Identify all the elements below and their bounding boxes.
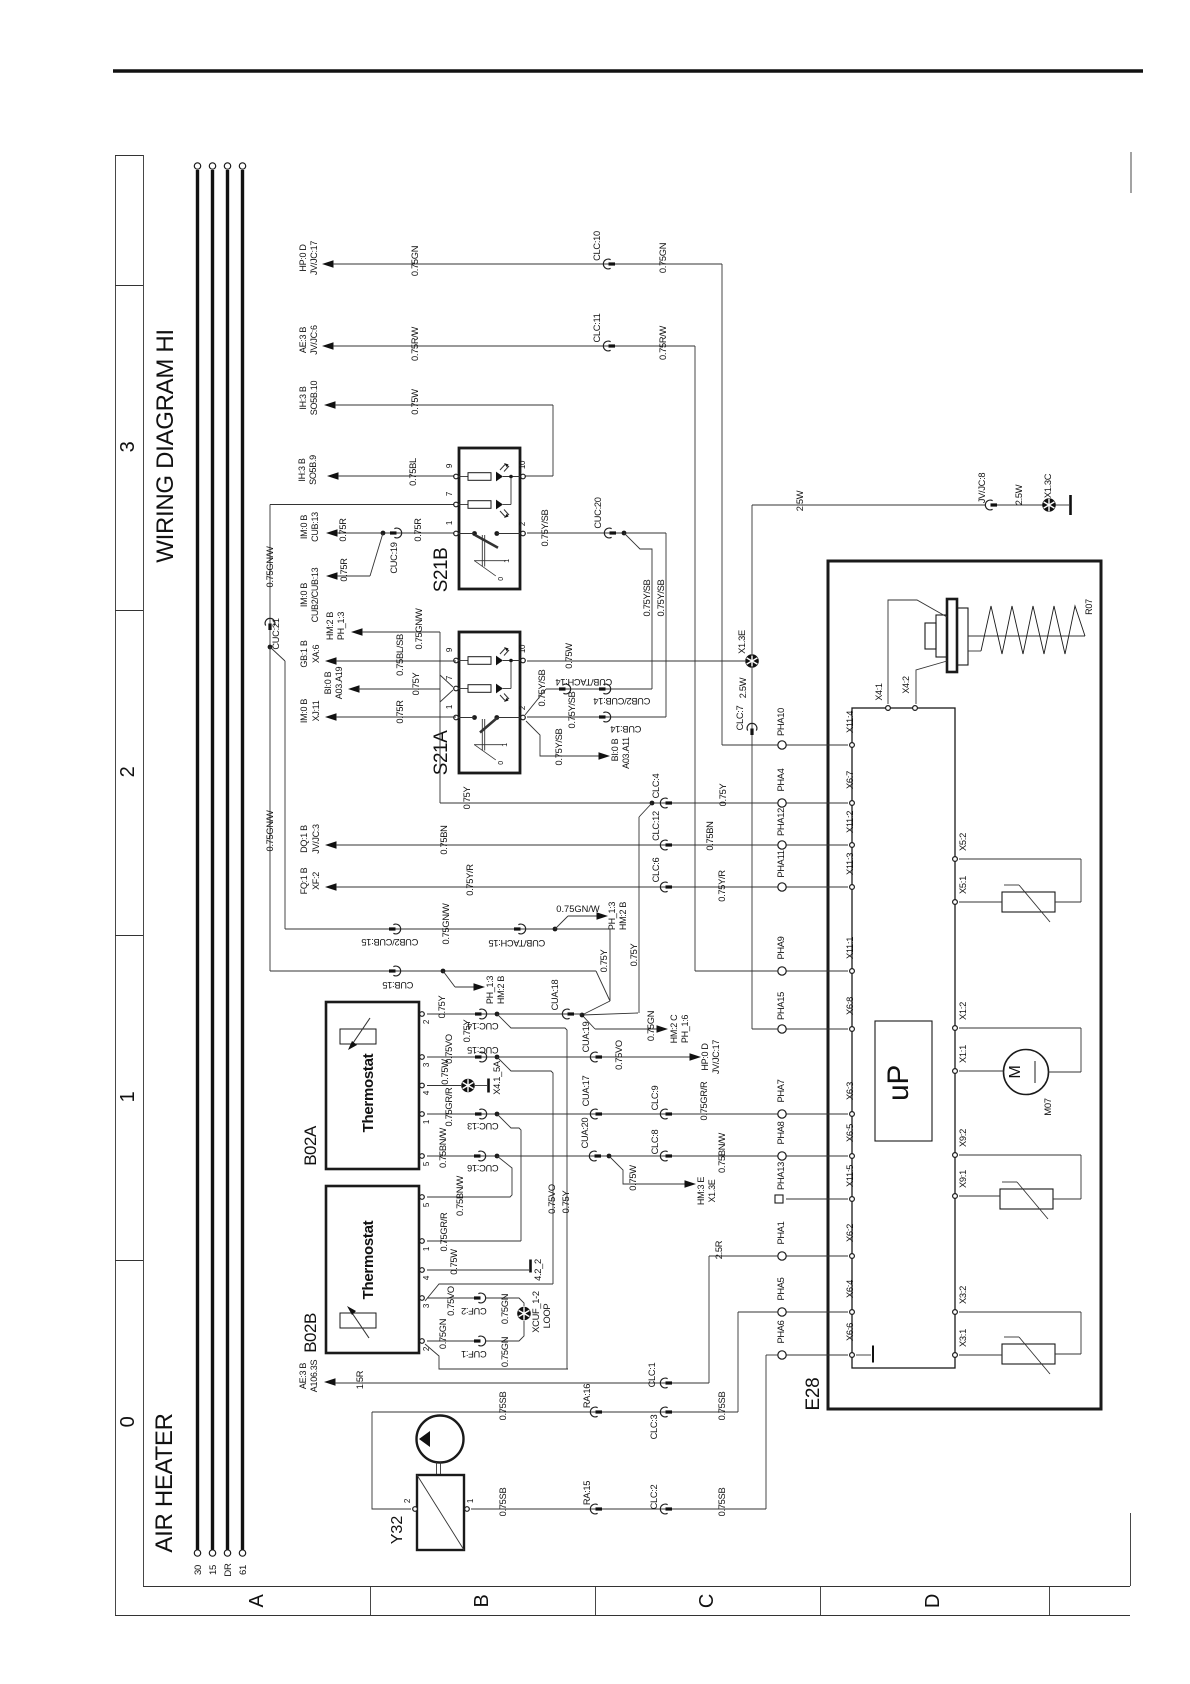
svg-text:X11:5: X11:5 bbox=[845, 1165, 855, 1187]
E28 inner unit box bbox=[852, 708, 955, 1368]
connector CLC:4 bbox=[651, 773, 672, 807]
node HM:2 B PH_1:3 right (arrow) bbox=[597, 902, 629, 931]
junction row1156 a bbox=[495, 1154, 500, 1159]
svg-text:Y32: Y32 bbox=[389, 1516, 406, 1545]
svg-text:X4.1_5A: X4.1_5A bbox=[492, 1060, 502, 1095]
wire 0.75GN/W x270 lower bbox=[269, 647, 271, 971]
svg-text:S21B: S21B bbox=[431, 548, 452, 592]
svg-text:PHA7: PHA7 bbox=[776, 1079, 786, 1102]
frame divider 2/3 bbox=[115, 610, 143, 612]
svg-text:E28: E28 bbox=[803, 1378, 824, 1411]
svg-text:PHA9: PHA9 bbox=[776, 936, 786, 959]
svg-text:IH:3 B: IH:3 B bbox=[298, 386, 308, 410]
svg-text:IM:0 B: IM:0 B bbox=[299, 583, 309, 608]
svg-text:0.75SB: 0.75SB bbox=[498, 1392, 508, 1421]
B02A pin 5 bbox=[420, 1154, 431, 1166]
node HM:2 B PH_1:3 row987 (arrow) bbox=[474, 976, 507, 1005]
wire 0.75Y row1014 bbox=[427, 1013, 582, 1015]
S21A switch contacts bbox=[458, 715, 520, 765]
svg-text:CUF:2: CUF:2 bbox=[461, 1306, 486, 1316]
label 0.75R/W row346-left bbox=[410, 326, 420, 361]
label 0.75R/W row346-right bbox=[658, 325, 668, 360]
label 0.75Y/SB x666 bbox=[656, 579, 666, 616]
svg-text:0.75VO: 0.75VO bbox=[547, 1184, 557, 1214]
svg-text:CUA:20: CUA:20 bbox=[580, 1118, 590, 1149]
svg-text:CLC:3: CLC:3 bbox=[649, 1414, 659, 1439]
label 1.5R row1383 bbox=[355, 1370, 365, 1389]
wire 0.75W row405 bbox=[335, 405, 553, 476]
B02B pin 5 bbox=[420, 1195, 431, 1207]
wire 0.75BN/W row1156 bbox=[427, 1155, 778, 1157]
svg-text:AIR HEATER: AIR HEATER bbox=[151, 1413, 178, 1552]
E28 pin X6:8 / bushing PHA15 bbox=[776, 992, 855, 1033]
svg-text:0.75R/W: 0.75R/W bbox=[658, 325, 668, 360]
label 0.75VO row1057-left bbox=[444, 1034, 454, 1064]
B02B pin 1 bbox=[420, 1239, 431, 1251]
microprocessor uP box bbox=[875, 1021, 932, 1141]
svg-text:0.75VO: 0.75VO bbox=[614, 1040, 624, 1070]
frame left inner line bbox=[143, 155, 145, 1586]
wire 0.75Y/SB kink to x652 bbox=[624, 533, 652, 689]
wire 0.75W row1270 bbox=[427, 1269, 529, 1271]
splice X1.3E bbox=[737, 630, 759, 668]
label 0.75BN row845-right bbox=[705, 821, 715, 850]
wire 0.75Y riser x638 bbox=[639, 803, 652, 1013]
label 0.75BN/W branch bbox=[455, 1175, 465, 1215]
svg-text:X5:2: X5:2 bbox=[958, 833, 968, 851]
svg-text:0.75W: 0.75W bbox=[410, 389, 420, 415]
svg-text:DQ:1 B: DQ:1 B bbox=[299, 825, 309, 853]
E28 pin X11:5 / bushing PHA13 bbox=[775, 1162, 855, 1203]
frame row label C bbox=[696, 1594, 718, 1608]
svg-text:0.75Y: 0.75Y bbox=[561, 1191, 571, 1214]
svg-text:X11:4: X11:4 bbox=[845, 711, 855, 733]
E28 pin X1:1 bbox=[953, 1045, 968, 1073]
svg-text:0.75SB: 0.75SB bbox=[717, 1392, 727, 1421]
label 0.75R row533-left bbox=[338, 518, 348, 542]
thermostat B02B bbox=[301, 1186, 419, 1353]
svg-text:PHA1: PHA1 bbox=[776, 1221, 786, 1244]
svg-text:RA:16: RA:16 bbox=[582, 1384, 592, 1408]
svg-text:15: 15 bbox=[208, 1565, 219, 1575]
frame bottom divider C/D bbox=[820, 1586, 822, 1615]
svg-text:A: A bbox=[246, 1594, 268, 1608]
connector CUC:19 bbox=[389, 528, 402, 574]
E28 pin X6:7 / bushing PHA4 bbox=[776, 768, 855, 807]
svg-text:HP:0 D: HP:0 D bbox=[700, 1043, 710, 1071]
label 0.75VO x553 bbox=[547, 1184, 557, 1214]
svg-text:0.75BN/W: 0.75BN/W bbox=[438, 1127, 448, 1167]
wire row803 feed bbox=[440, 802, 778, 804]
svg-text:0.75VO: 0.75VO bbox=[446, 1286, 456, 1316]
svg-text:0.75GN/W: 0.75GN/W bbox=[556, 904, 600, 914]
wire Y32 pin2 loop bbox=[372, 1412, 411, 1509]
svg-text:CUB2/CUB:15: CUB2/CUB:15 bbox=[362, 937, 419, 947]
svg-text:XA:6: XA:6 bbox=[311, 645, 321, 664]
S21B lamp row7 bbox=[458, 500, 511, 518]
svg-text:0.75BL: 0.75BL bbox=[408, 458, 418, 486]
S21A lamp row7 bbox=[458, 684, 511, 702]
svg-text:B02A: B02A bbox=[301, 1125, 320, 1166]
wire 0.75R row576 bbox=[337, 533, 383, 576]
wire B02B pin3 diag bbox=[425, 1284, 553, 1301]
junction row803 bbox=[650, 801, 655, 806]
connector CLC:6 bbox=[651, 857, 672, 891]
connector CUF:1 bbox=[461, 1336, 486, 1359]
connector CUF:2 bbox=[461, 1293, 486, 1316]
connector CLC:2 bbox=[649, 1484, 672, 1513]
power rail 15 bbox=[208, 163, 219, 1575]
svg-text:CUC:21: CUC:21 bbox=[271, 618, 281, 649]
frame column label 0 bbox=[117, 1416, 139, 1427]
junction row1057 bbox=[495, 1055, 500, 1060]
label 0.75VO row1298 bbox=[446, 1286, 456, 1316]
label 0.75R row533-right bbox=[413, 518, 423, 542]
wire 0.75BN/W branch B02B pin5 bbox=[427, 1156, 512, 1197]
label 0.75GN row264-left bbox=[410, 246, 420, 276]
E28 pin X6:4 / bushing PHA5 bbox=[776, 1277, 855, 1316]
label 0.75Y/SB row717 bbox=[567, 691, 577, 728]
connector CUB/TACH:14 bbox=[556, 677, 613, 694]
title WIRING DIAGRAM HI bbox=[152, 329, 179, 563]
S21A pin7 diagonals bbox=[440, 675, 453, 702]
wire diag row929 to arrow916 bbox=[555, 916, 597, 929]
thermistor R-T3 wires bbox=[959, 1312, 1081, 1355]
svg-text:HM:2 B: HM:2 B bbox=[496, 976, 506, 1005]
label 0.75R row576 bbox=[339, 558, 349, 582]
junction row1014 bbox=[495, 1012, 500, 1017]
glow plug R07 body bbox=[925, 599, 968, 672]
junction row1114 bbox=[495, 1112, 500, 1117]
svg-text:CLC:9: CLC:9 bbox=[650, 1085, 660, 1110]
wire 0.75Y/SB S21B-pin2 bbox=[527, 532, 666, 534]
svg-text:0.75R: 0.75R bbox=[395, 700, 405, 724]
svg-text:X1:2: X1:2 bbox=[958, 1002, 968, 1020]
svg-text:BI:0 B: BI:0 B bbox=[323, 671, 333, 694]
svg-text:0: 0 bbox=[498, 761, 505, 765]
junction row971 bbox=[441, 969, 446, 974]
svg-text:X6:3: X6:3 bbox=[845, 1082, 855, 1100]
wire 0.75VO kink x553 bbox=[497, 1057, 553, 1284]
R07 heater coil bbox=[981, 599, 1094, 654]
svg-text:0: 0 bbox=[117, 1416, 139, 1427]
svg-text:0.75GN/W: 0.75GN/W bbox=[265, 546, 275, 588]
svg-text:30: 30 bbox=[193, 1565, 204, 1575]
node FQ:1 B XF:2 (arrow) bbox=[299, 867, 337, 894]
wire 0.75SB row1509 bbox=[471, 1508, 766, 1510]
svg-text:S21A: S21A bbox=[431, 730, 452, 775]
wire fan diagonals bbox=[582, 971, 638, 1029]
node IH:3 B SO5B.10 (arrow) bbox=[298, 381, 336, 416]
junction CUC:21 bottom bbox=[268, 645, 273, 650]
svg-text:X6:8: X6:8 bbox=[845, 997, 855, 1015]
label 0.75BL/SB row661 bbox=[395, 634, 405, 676]
pump Y32 circle bbox=[417, 1416, 464, 1463]
wire 0.75Y/SB branch to BI arrow bbox=[526, 721, 600, 756]
node BI:0 B A03.A19 (arrow) bbox=[323, 666, 360, 699]
connector CUA:19 bbox=[581, 1022, 602, 1062]
svg-text:CLC:11: CLC:11 bbox=[592, 313, 602, 342]
B02A pin 2 bbox=[420, 1012, 431, 1024]
wire 0.75GN/W diag to x285 bbox=[270, 647, 285, 929]
svg-text:4.2_2: 4.2_2 bbox=[533, 1259, 543, 1281]
svg-text:0.75Y: 0.75Y bbox=[718, 784, 728, 807]
svg-text:IM:0 B: IM:0 B bbox=[299, 699, 309, 724]
svg-text:CUB2/CUB:13: CUB2/CUB:13 bbox=[310, 567, 320, 622]
node IM:0 B XJ:11 (arrow) bbox=[299, 699, 337, 724]
svg-text:0.75Y/SB: 0.75Y/SB bbox=[554, 728, 564, 765]
wire 2.5R riser x709 bbox=[708, 1256, 710, 1383]
B02A pin 1 bbox=[420, 1112, 431, 1124]
svg-text:X6:7: X6:7 bbox=[845, 771, 855, 789]
label 0.75R row717 bbox=[395, 700, 405, 724]
label 0.75BN/W row1156-right bbox=[717, 1132, 727, 1172]
svg-text:0.75GN/W: 0.75GN/W bbox=[414, 608, 424, 650]
svg-text:HM:2 C: HM:2 C bbox=[669, 1014, 679, 1044]
wire 0.75Y x610 bbox=[609, 929, 611, 1001]
wire 0.75GN/W row929 bbox=[285, 928, 610, 930]
E28 pin X1:2 bbox=[953, 1002, 968, 1030]
S21B switch contacts bbox=[458, 531, 520, 581]
svg-text:A03.A11: A03.A11 bbox=[621, 737, 631, 769]
frame bottom divider A/B bbox=[370, 1586, 372, 1615]
svg-text:0.75W: 0.75W bbox=[564, 643, 574, 669]
svg-text:PHA5: PHA5 bbox=[776, 1277, 786, 1300]
wire 2.5W riser x752 bbox=[751, 505, 753, 1029]
svg-text:0.75SB: 0.75SB bbox=[717, 1488, 727, 1517]
label 0.75Y row689 bbox=[411, 673, 421, 696]
svg-text:Thermostat: Thermostat bbox=[360, 1220, 377, 1299]
thermistor R-T1 wires bbox=[959, 859, 1081, 902]
wire 0.75R/W row346 bbox=[333, 345, 695, 347]
E28 pin X3:2 bbox=[953, 1286, 968, 1314]
svg-text:CLC:10: CLC:10 bbox=[592, 231, 602, 261]
svg-text:X9:2: X9:2 bbox=[958, 1129, 968, 1147]
label 0.75GN/W row632 bbox=[414, 608, 424, 650]
connector CUB2/CUB:15 bbox=[362, 924, 419, 947]
frame column label 1 bbox=[117, 1091, 139, 1102]
junction row1156 b bbox=[607, 1154, 612, 1159]
wire 0.75R row533 bbox=[337, 532, 456, 534]
svg-text:0.75R/W: 0.75R/W bbox=[410, 326, 420, 361]
page border frame top rule bbox=[113, 69, 1143, 72]
svg-text:X6:2: X6:2 bbox=[845, 1224, 855, 1242]
frame divider 1/2 bbox=[115, 935, 143, 937]
valve Y32 box bbox=[389, 1475, 464, 1550]
connector CLC:3 bbox=[649, 1407, 672, 1439]
label 2.5W x752 bbox=[738, 677, 748, 698]
svg-text:0.75GN/W: 0.75GN/W bbox=[265, 810, 275, 852]
S21A pin 2 bbox=[518, 705, 527, 720]
ground X1.3C terminal bbox=[1069, 495, 1072, 515]
connector RA:15 bbox=[582, 1481, 602, 1514]
power rail 30 bbox=[193, 163, 204, 1575]
splice X1.3C bbox=[1042, 473, 1056, 512]
wire 0.75BL row476 bbox=[338, 475, 456, 477]
frame row label D bbox=[922, 1594, 944, 1608]
label 0.75W row1184 bbox=[628, 1165, 638, 1191]
svg-text:X6:5: X6:5 bbox=[845, 1124, 855, 1142]
svg-text:SO5B.9: SO5B.9 bbox=[308, 455, 318, 485]
S21A pin 9 bbox=[445, 647, 458, 663]
svg-text:0.75BN: 0.75BN bbox=[705, 821, 715, 850]
svg-text:B02B: B02B bbox=[301, 1313, 320, 1353]
wire row971 feed bbox=[695, 970, 778, 972]
svg-text:0.75R: 0.75R bbox=[413, 518, 423, 542]
svg-text:CLC:6: CLC:6 bbox=[651, 857, 661, 882]
svg-text:XJ:11: XJ:11 bbox=[311, 700, 321, 721]
label 0.75Y row1014 bbox=[437, 996, 447, 1019]
svg-text:0.75BN/W: 0.75BN/W bbox=[455, 1175, 465, 1215]
ECU E28 box bbox=[803, 561, 1101, 1410]
B02A pin 4 bbox=[420, 1083, 431, 1095]
wire row689 hooks segment bbox=[525, 689, 652, 715]
svg-text:10: 10 bbox=[518, 460, 527, 469]
svg-text:2.5W: 2.5W bbox=[795, 490, 805, 511]
svg-text:CLC:4: CLC:4 bbox=[651, 773, 661, 798]
wire 0.75GN/W row632 bbox=[362, 632, 440, 803]
svg-text:CUB/TACH:14: CUB/TACH:14 bbox=[556, 677, 613, 687]
connector CUB:15 bbox=[383, 966, 414, 990]
svg-text:JV/JC:17: JV/JC:17 bbox=[309, 241, 319, 275]
svg-text:C: C bbox=[696, 1594, 718, 1608]
wire 0.75VO row1057 bbox=[427, 1056, 690, 1058]
node AE:3 B A106.3S (arrow) bbox=[298, 1359, 336, 1392]
label 0.75W row1270 bbox=[449, 1249, 459, 1275]
connector CUC:14 bbox=[467, 1009, 498, 1031]
svg-text:AE:3 B: AE:3 B bbox=[298, 327, 308, 354]
motor M07 wires bbox=[959, 1028, 1081, 1072]
B02B pin 3 bbox=[420, 1296, 431, 1308]
node HM:2 C PH_1:6 (arrow) bbox=[657, 1014, 691, 1044]
label 0.75SB row1509-right bbox=[717, 1488, 727, 1517]
Y32 pin 2 bbox=[403, 1498, 417, 1511]
svg-text:0.75Y: 0.75Y bbox=[437, 996, 447, 1019]
Y32 diagonal bbox=[417, 1475, 464, 1550]
svg-text:0.75GN: 0.75GN bbox=[500, 1294, 510, 1324]
frame divider 3/blank bbox=[115, 285, 143, 287]
frame row label B bbox=[471, 1594, 493, 1607]
svg-text:HM:2 B: HM:2 B bbox=[618, 902, 628, 931]
node HP:0 D JV/JC:17 (arrow) bbox=[298, 241, 334, 275]
svg-text:X4:2: X4:2 bbox=[901, 676, 911, 694]
wire row1355 feed bbox=[766, 1354, 778, 1356]
svg-text:2.5W: 2.5W bbox=[1014, 484, 1024, 505]
svg-text:CUC:19: CUC:19 bbox=[389, 542, 399, 573]
svg-text:61: 61 bbox=[238, 1565, 249, 1575]
wire 0.75W branch to HM:3E bbox=[609, 1156, 685, 1184]
wire 2.5W row505 bbox=[752, 504, 1069, 506]
label 0.75W row1086 bbox=[440, 1059, 450, 1085]
svg-text:PHA6: PHA6 bbox=[776, 1320, 786, 1343]
svg-text:0.75Y: 0.75Y bbox=[462, 787, 472, 810]
svg-text:0.75R: 0.75R bbox=[339, 558, 349, 582]
label 0.75Y/SB branch bbox=[554, 728, 564, 765]
connector CLC:11 bbox=[592, 313, 615, 351]
svg-text:PHA12: PHA12 bbox=[776, 808, 786, 836]
label 0.75SB row1412-left bbox=[498, 1392, 508, 1421]
label 0.75GN/W x270 lower bbox=[265, 810, 275, 852]
connector CUC:20 bbox=[593, 497, 616, 538]
R07 wires bbox=[968, 636, 1085, 651]
wire 0.75R/W riser x695 bbox=[694, 346, 696, 971]
switch S21A bbox=[431, 632, 520, 775]
label 2.5R riser bbox=[714, 1240, 724, 1259]
svg-text:0.75GN: 0.75GN bbox=[646, 1011, 656, 1041]
svg-text:M07: M07 bbox=[1043, 1098, 1054, 1116]
connector CUC:13 bbox=[467, 1109, 498, 1131]
svg-text:HP:0 D: HP:0 D bbox=[298, 244, 308, 272]
E28 X6:6 internal ground bbox=[856, 1346, 873, 1363]
power rail DR bbox=[223, 163, 234, 1577]
E28 pin X11:3 / bushing PHA11 bbox=[776, 850, 855, 891]
B02B pin 4 bbox=[420, 1268, 431, 1280]
svg-text:WIRING DIAGRAM HI: WIRING DIAGRAM HI bbox=[152, 329, 179, 563]
svg-text:0.75W: 0.75W bbox=[449, 1249, 459, 1275]
node GB:1 B XA:6 (arrow) bbox=[299, 640, 337, 668]
label 0.75Y x610 bbox=[599, 950, 609, 973]
svg-text:0.75GN/W: 0.75GN/W bbox=[441, 903, 451, 945]
svg-text:IM:0 B: IM:0 B bbox=[299, 515, 309, 540]
svg-text:IH:3 B: IH:3 B bbox=[297, 458, 307, 482]
label 0.75GN row264-right bbox=[658, 243, 668, 273]
wire 0.75GN row1341 bbox=[427, 1340, 476, 1342]
frame bottom inner line bbox=[143, 1586, 1130, 1588]
node HM:2 B PH_1:3 (arrow) bbox=[325, 612, 363, 641]
label 0.75Y x440 bbox=[462, 787, 472, 810]
svg-text:CUB:13: CUB:13 bbox=[310, 512, 320, 542]
svg-text:X6:6: X6:6 bbox=[845, 1323, 855, 1341]
connector CUA:20 bbox=[580, 1118, 601, 1161]
wire row1029 feed bbox=[752, 1028, 778, 1030]
wire 0.75GN row1029 bbox=[595, 1028, 657, 1030]
E28 pin X6:2 / bushing PHA1 bbox=[776, 1221, 855, 1260]
connector CLC:10 bbox=[592, 231, 615, 269]
svg-text:PHA10: PHA10 bbox=[776, 708, 786, 736]
connector CUB/TACH:15 bbox=[489, 924, 546, 948]
wire row971 bbox=[270, 970, 596, 972]
frame top tick bbox=[115, 155, 143, 157]
svg-text:1: 1 bbox=[117, 1091, 139, 1102]
wire 0.75GR/R row1114 bbox=[427, 1113, 778, 1115]
svg-text:0.75BL/SB: 0.75BL/SB bbox=[395, 634, 405, 676]
svg-text:X9:1: X9:1 bbox=[958, 1170, 968, 1188]
svg-text:X11:1: X11:1 bbox=[845, 937, 855, 959]
wire 0.75GN/W drop x270 bbox=[269, 505, 271, 648]
svg-text:0.75BN: 0.75BN bbox=[439, 825, 449, 854]
svg-text:D: D bbox=[922, 1594, 944, 1608]
B02B pin 2 bbox=[420, 1339, 431, 1351]
connector CUC:15 bbox=[467, 1045, 498, 1062]
R07 connection X4:2 bbox=[916, 661, 947, 704]
svg-text:CUA:18: CUA:18 bbox=[550, 980, 560, 1011]
svg-text:PHA15: PHA15 bbox=[776, 992, 786, 1020]
svg-text:0.75GN: 0.75GN bbox=[658, 243, 668, 273]
svg-text:Thermostat: Thermostat bbox=[360, 1053, 377, 1132]
node DQ:1 B JV/JC:3 (arrow) bbox=[299, 824, 337, 854]
svg-text:CUA:19: CUA:19 bbox=[581, 1022, 591, 1053]
label 0.75GN row1341b bbox=[500, 1337, 510, 1367]
svg-text:0.75W: 0.75W bbox=[628, 1165, 638, 1191]
svg-text:0: 0 bbox=[498, 577, 505, 581]
motor M07 bbox=[1004, 1050, 1055, 1116]
svg-text:0.75BN/W: 0.75BN/W bbox=[717, 1132, 727, 1172]
svg-text:X6:4: X6:4 bbox=[845, 1280, 855, 1298]
label 0.75GN/W row929 bbox=[441, 903, 451, 945]
wire row745 feed bbox=[722, 744, 778, 746]
svg-text:CUB/TACH:15: CUB/TACH:15 bbox=[489, 938, 546, 948]
wire 0.75W row1086 bbox=[427, 1085, 487, 1087]
